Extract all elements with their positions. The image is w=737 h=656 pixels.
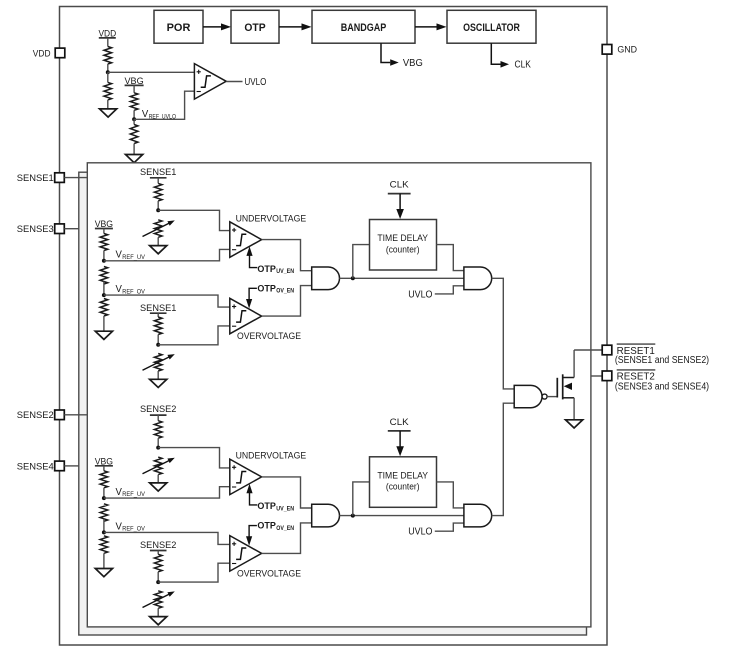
wire R4 to ground: [133, 144, 135, 155]
node SENSE1 UV tap 1: [156, 208, 160, 212]
wire to node VREF_UV 2: [103, 488, 105, 498]
resistor R1 (VDD divider top): [104, 47, 112, 65]
wire A1 output to AND gate B1: [339, 277, 464, 279]
wire R61 to ground: [157, 237, 159, 245]
wire to node VREF_OV 1: [103, 282, 105, 296]
wire NAND output to Q1 gate: [547, 396, 557, 398]
wire SENSE3 pin to back box: [64, 228, 79, 230]
svg-text:REF_OV: REF_OV: [122, 526, 145, 533]
wire A2 output to AND gate B2: [339, 515, 464, 517]
wire VREF_OV to U32 plus input: [104, 532, 230, 544]
net label VBG (UVLO ref): [125, 75, 144, 86]
wire VBG stub 2: [103, 466, 105, 471]
wire OV tap to U31 minus input: [158, 326, 230, 345]
svg-text:(SENSE3 and SENSE4): (SENSE3 and SENSE4): [615, 381, 709, 392]
AND gate A2 (UV/OV combine): [312, 504, 340, 527]
wire Q1 drain up to RESET1: [573, 350, 575, 378]
svg-text:VBG: VBG: [125, 75, 144, 86]
pin SENSE3: [55, 224, 65, 234]
svg-text:SENSE1: SENSE1: [140, 166, 176, 177]
svg-text:OTP: OTP: [257, 264, 276, 274]
label OTP_OV_EN 1: [257, 283, 294, 294]
node SENSE1 OV tap 1: [156, 343, 160, 347]
wire to UV tap node 1: [157, 201, 159, 210]
wire to OV tap node 2: [157, 572, 159, 582]
svg-text:OV_EN: OV_EN: [276, 525, 294, 532]
wire time delay output to AND gate B1: [437, 245, 464, 271]
wire SENSE1 pin to front box: [64, 177, 87, 179]
op-amp U21 (undervoltage comparator 1): [230, 222, 262, 257]
label OTP_OV_EN 2: [257, 521, 294, 532]
node A2 output tap: [351, 514, 355, 518]
AND gate B1 (reset qualify): [464, 267, 492, 290]
transistor Q1 (open-drain MOSFET): [557, 374, 574, 399]
svg-text:SENSE1: SENSE1: [17, 172, 54, 183]
wire R1 to node A: [107, 64, 109, 72]
wire U1 output UVLO: [226, 81, 242, 83]
OTP_OV_EN arrow into U31: [246, 288, 257, 308]
variable resistor R62 (SENSE2 UV ladder bottom): [143, 457, 175, 475]
wire R91 to ground: [103, 316, 105, 331]
pin label GND: [617, 44, 637, 55]
wire VREF_UVLO node to R4: [133, 119, 135, 124]
svg-text:(counter): (counter): [386, 244, 420, 255]
ground (VBG divider): [126, 155, 143, 163]
pin label RESET2: [617, 370, 656, 383]
wire U32 output to AND gate A2: [262, 523, 312, 554]
svg-text:CLK: CLK: [390, 180, 410, 191]
label OVERVOLTAGE 2: [237, 568, 301, 579]
svg-text:REF_UV: REF_UV: [122, 491, 145, 498]
svg-text:UVLO: UVLO: [245, 77, 267, 88]
svg-text:OVERVOLTAGE: OVERVOLTAGE: [237, 568, 301, 579]
pin label SENSE3: [17, 223, 54, 234]
wire VREF_UV to U21 minus input: [104, 249, 230, 260]
wire SENSE2 OV ladder stub 2: [157, 551, 159, 555]
pin RESET2: [602, 371, 612, 381]
net label VBG (ref ladder 1): [95, 218, 113, 229]
wire UVLO to AND gate B2: [435, 523, 464, 531]
arrow OTP to BANDGAP: [279, 23, 312, 30]
svg-text:OTP: OTP: [244, 22, 266, 34]
ground (VDD divider): [100, 109, 117, 117]
net label VDD: [98, 28, 116, 39]
svg-text:UV_EN: UV_EN: [276, 268, 294, 275]
wire U31 output to AND gate A1: [262, 286, 312, 317]
svg-text:UVLO: UVLO: [408, 289, 433, 300]
pin label VDD: [33, 47, 51, 58]
wire node A down to R2: [107, 72, 109, 82]
svg-text:REF_OV: REF_OV: [122, 288, 145, 295]
wire to node VREF_UV 1: [103, 251, 105, 261]
wire UV tap to U21 plus input: [158, 210, 230, 230]
node VREF_UV 2: [102, 496, 106, 500]
node VREF_UVLO: [132, 117, 136, 121]
node SENSE2 OV tap 2: [156, 580, 160, 584]
resistor R71 (ref ladder top): [100, 234, 108, 251]
label VREF_UV 1: [116, 250, 146, 261]
wire SENSE4 pin to back box: [64, 465, 79, 467]
pin SENSE4: [55, 461, 65, 471]
wire SENSE1 OV ladder stub 1: [157, 313, 159, 317]
wire R2 to ground: [107, 100, 109, 109]
svg-text:SENSE2: SENSE2: [140, 539, 176, 550]
resistor R72 (ref ladder top): [100, 471, 108, 488]
wire R3 to node VREF_UVLO: [133, 110, 135, 119]
node VREF_UV 1: [102, 259, 106, 263]
svg-text:VDD: VDD: [33, 47, 51, 58]
net label SENSE1 (UV ladder 1): [140, 166, 176, 178]
label UVLO output: [245, 77, 267, 88]
svg-text:VBG: VBG: [95, 456, 113, 467]
svg-text:SENSE1: SENSE1: [140, 302, 176, 313]
OTP_OV_EN arrow into U32: [246, 526, 257, 546]
node VREF_OV 2: [102, 530, 106, 534]
wire VREF_OV to U31 plus input: [104, 295, 230, 307]
svg-text:VBG: VBG: [403, 58, 423, 69]
ground (SENSE2 OV ladder 2): [150, 617, 167, 625]
OTP_UV_EN arrow into U22: [246, 484, 257, 505]
block TIME DELAY counter 1: [370, 220, 437, 271]
AND gate B2 (reset qualify): [464, 504, 492, 527]
pin VDD: [55, 48, 65, 58]
wire R111 to ground: [157, 371, 159, 379]
label OVERVOLTAGE 1: [237, 330, 301, 341]
wire CLK output of OSCILLATOR: [491, 43, 509, 67]
wire VDD label to divider: [107, 38, 109, 47]
svg-text:REF_UV: REF_UV: [122, 254, 145, 261]
svg-text:SENSE2: SENSE2: [140, 403, 176, 414]
label UVLO input 2: [408, 527, 433, 538]
node A (VDD divider tap): [106, 70, 110, 74]
label UVLO input 1: [408, 289, 433, 300]
label OTP_UV_EN 2: [257, 501, 294, 512]
resistor R2 (VDD divider bottom): [104, 82, 112, 100]
net label CLK 1: [388, 180, 411, 194]
net label SENSE2 (UV ladder 2): [140, 403, 176, 415]
op-amp U1 (UVLO comparator): [194, 64, 226, 100]
wire time delay output to AND gate B2: [437, 482, 464, 508]
svg-text:UV_EN: UV_EN: [276, 505, 294, 512]
svg-text:CLK: CLK: [515, 60, 532, 71]
label RESET1 note: [615, 355, 709, 366]
svg-text:UVLO: UVLO: [408, 527, 433, 538]
resistor R101 (SENSE1 OV ladder top): [154, 317, 162, 335]
wire AND B2 output to NAND U4: [492, 403, 515, 515]
block POR: [154, 10, 203, 43]
wire RESET2: [591, 375, 602, 377]
arrow POR to OTP: [203, 23, 231, 30]
svg-text:SENSE3: SENSE3: [17, 223, 54, 234]
label VREF_OV 1: [116, 284, 146, 295]
pin label SENSE1: [17, 172, 54, 183]
svg-text:(SENSE1 and SENSE2): (SENSE1 and SENSE2): [615, 355, 709, 366]
variable resistor R111 (SENSE1 OV ladder bottom): [143, 354, 175, 372]
wire AND B1 output to NAND U4: [492, 278, 515, 389]
pin label SENSE4: [17, 460, 54, 471]
chip boundary box: [60, 7, 608, 646]
op-amp U32 (overvoltage comparator 2): [230, 536, 262, 572]
pin RESET1: [602, 345, 612, 355]
node A1 output tap: [351, 276, 355, 280]
wire VREF_UV to U22 minus input: [104, 487, 230, 498]
resistor R91 (ref ladder bottom): [100, 299, 108, 317]
node VREF_OV 1: [102, 293, 106, 297]
svg-text:VBG: VBG: [95, 218, 113, 229]
AND gate A1 (UV/OV combine): [312, 267, 340, 290]
variable resistor R61 (SENSE1 UV ladder bottom): [143, 220, 175, 238]
svg-text:OTP: OTP: [257, 283, 276, 293]
pin SENSE2: [55, 410, 65, 420]
CLK arrow into time delay 1: [396, 194, 404, 219]
wire tap up to time delay 1: [353, 245, 370, 279]
wire UV tap to U22 plus input: [158, 448, 230, 468]
wire to UV tap node 2: [157, 438, 159, 447]
OTP_UV_EN arrow into U21: [246, 246, 257, 267]
block OTP: [231, 10, 279, 43]
resistor R52 (SENSE2 UV ladder top): [154, 421, 162, 439]
pin label SENSE2: [17, 409, 54, 420]
pin GND: [602, 45, 612, 55]
svg-text:VDD: VDD: [98, 28, 116, 39]
wire U21 output to AND gate A1: [262, 240, 312, 271]
svg-text:(counter): (counter): [386, 482, 420, 493]
wire Q1 source to ground: [573, 398, 575, 420]
op-amp U22 (undervoltage comparator 2): [230, 459, 262, 495]
wire RESET1: [574, 349, 602, 351]
wire node A to U1 plus input: [108, 71, 195, 73]
net label SENSE1 (OV ladder 1): [140, 302, 176, 313]
svg-text:BANDGAP: BANDGAP: [341, 22, 387, 34]
svg-text:SENSE2: SENSE2: [17, 409, 54, 420]
back channel box (SENSE3/SENSE4): [79, 172, 587, 635]
wire R92 to ground: [103, 553, 105, 568]
resistor R3 (VBG divider top): [130, 93, 138, 111]
block TIME DELAY counter 2: [370, 457, 437, 508]
wire VBG label to R3: [133, 85, 135, 92]
ground (Q1 source): [566, 420, 583, 428]
svg-text:POR: POR: [167, 22, 191, 34]
svg-text:TIME DELAY: TIME DELAY: [377, 233, 428, 244]
wire to node VREF_OV 2: [103, 519, 105, 533]
svg-text:OV_EN: OV_EN: [276, 288, 294, 295]
label UNDERVOLTAGE 2: [236, 450, 307, 461]
wire tap up to time delay 2: [353, 482, 370, 516]
op-amp U31 (overvoltage comparator 1): [230, 298, 262, 334]
label VREF_OV 2: [116, 521, 146, 532]
svg-text:SENSE4: SENSE4: [17, 460, 54, 471]
front channel box (SENSE1/SENSE2): [87, 163, 591, 627]
CLK arrow into time delay 2: [396, 431, 404, 456]
net label CLK 2: [388, 417, 411, 431]
label VREF_UVLO: [142, 109, 176, 120]
ground (SENSE1 OV ladder 1): [150, 379, 167, 387]
label VBG output: [403, 58, 423, 69]
svg-text:TIME DELAY: TIME DELAY: [377, 471, 428, 482]
label OTP_UV_EN 1: [257, 264, 294, 275]
node SENSE2 UV tap 2: [156, 446, 160, 450]
wire R112 to ground: [157, 608, 159, 616]
block BANDGAP: [312, 10, 415, 43]
svg-text:OSCILLATOR: OSCILLATOR: [463, 22, 520, 34]
label UNDERVOLTAGE 1: [236, 212, 307, 223]
ground (SENSE2 UV ladder 2): [150, 483, 167, 491]
svg-text:OTP: OTP: [257, 521, 276, 531]
arrow BANDGAP to OSCILLATOR: [415, 23, 447, 30]
wire SENSE2 UV ladder stub 2: [157, 415, 159, 421]
net label VBG (ref ladder 2): [95, 456, 113, 467]
wire SENSE2 pin to front box: [64, 414, 87, 416]
resistor R51 (SENSE1 UV ladder top): [154, 183, 162, 201]
ground (ref ladder 2): [95, 569, 112, 577]
label VREF_UV 2: [116, 487, 146, 498]
svg-text:CLK: CLK: [390, 417, 410, 428]
resistor R102 (SENSE2 OV ladder top): [154, 554, 162, 572]
wire VBG stub 1: [103, 229, 105, 234]
wire to OV tap node 1: [157, 335, 159, 345]
wire node VREF_UVLO to U1 minus input: [134, 91, 194, 119]
resistor R4 (VBG divider bottom): [130, 125, 138, 144]
pin label RESET1: [617, 344, 656, 357]
label RESET2 note: [615, 381, 709, 392]
net label SENSE2 (OV ladder 2): [140, 539, 176, 550]
variable resistor R112 (SENSE2 OV ladder bottom): [143, 591, 175, 609]
svg-text:GND: GND: [617, 44, 637, 55]
svg-text:OVERVOLTAGE: OVERVOLTAGE: [237, 330, 301, 341]
block OSCILLATOR: [447, 10, 536, 43]
resistor R82 (ref ladder middle): [100, 504, 108, 522]
NAND gate U4: [514, 385, 547, 407]
svg-text:UNDERVOLTAGE: UNDERVOLTAGE: [236, 212, 307, 223]
ground (ref ladder 1): [95, 331, 112, 339]
resistor R81 (ref ladder middle): [100, 267, 108, 285]
pin SENSE1: [55, 173, 65, 183]
wire SENSE1 UV ladder stub 1: [157, 178, 159, 184]
svg-text:OTP: OTP: [257, 501, 276, 511]
label CLK output: [515, 60, 532, 71]
wire VBG output of BANDGAP: [381, 43, 399, 66]
wire U22 output to AND gate A2: [262, 477, 312, 508]
resistor R92 (ref ladder bottom): [100, 536, 108, 554]
ground (SENSE1 UV ladder 1): [150, 246, 167, 254]
wire R62 to ground: [157, 475, 159, 483]
wire UVLO to AND gate B1: [435, 286, 464, 294]
wire OV tap to U32 minus input: [158, 563, 230, 582]
svg-text:UNDERVOLTAGE: UNDERVOLTAGE: [236, 450, 307, 461]
